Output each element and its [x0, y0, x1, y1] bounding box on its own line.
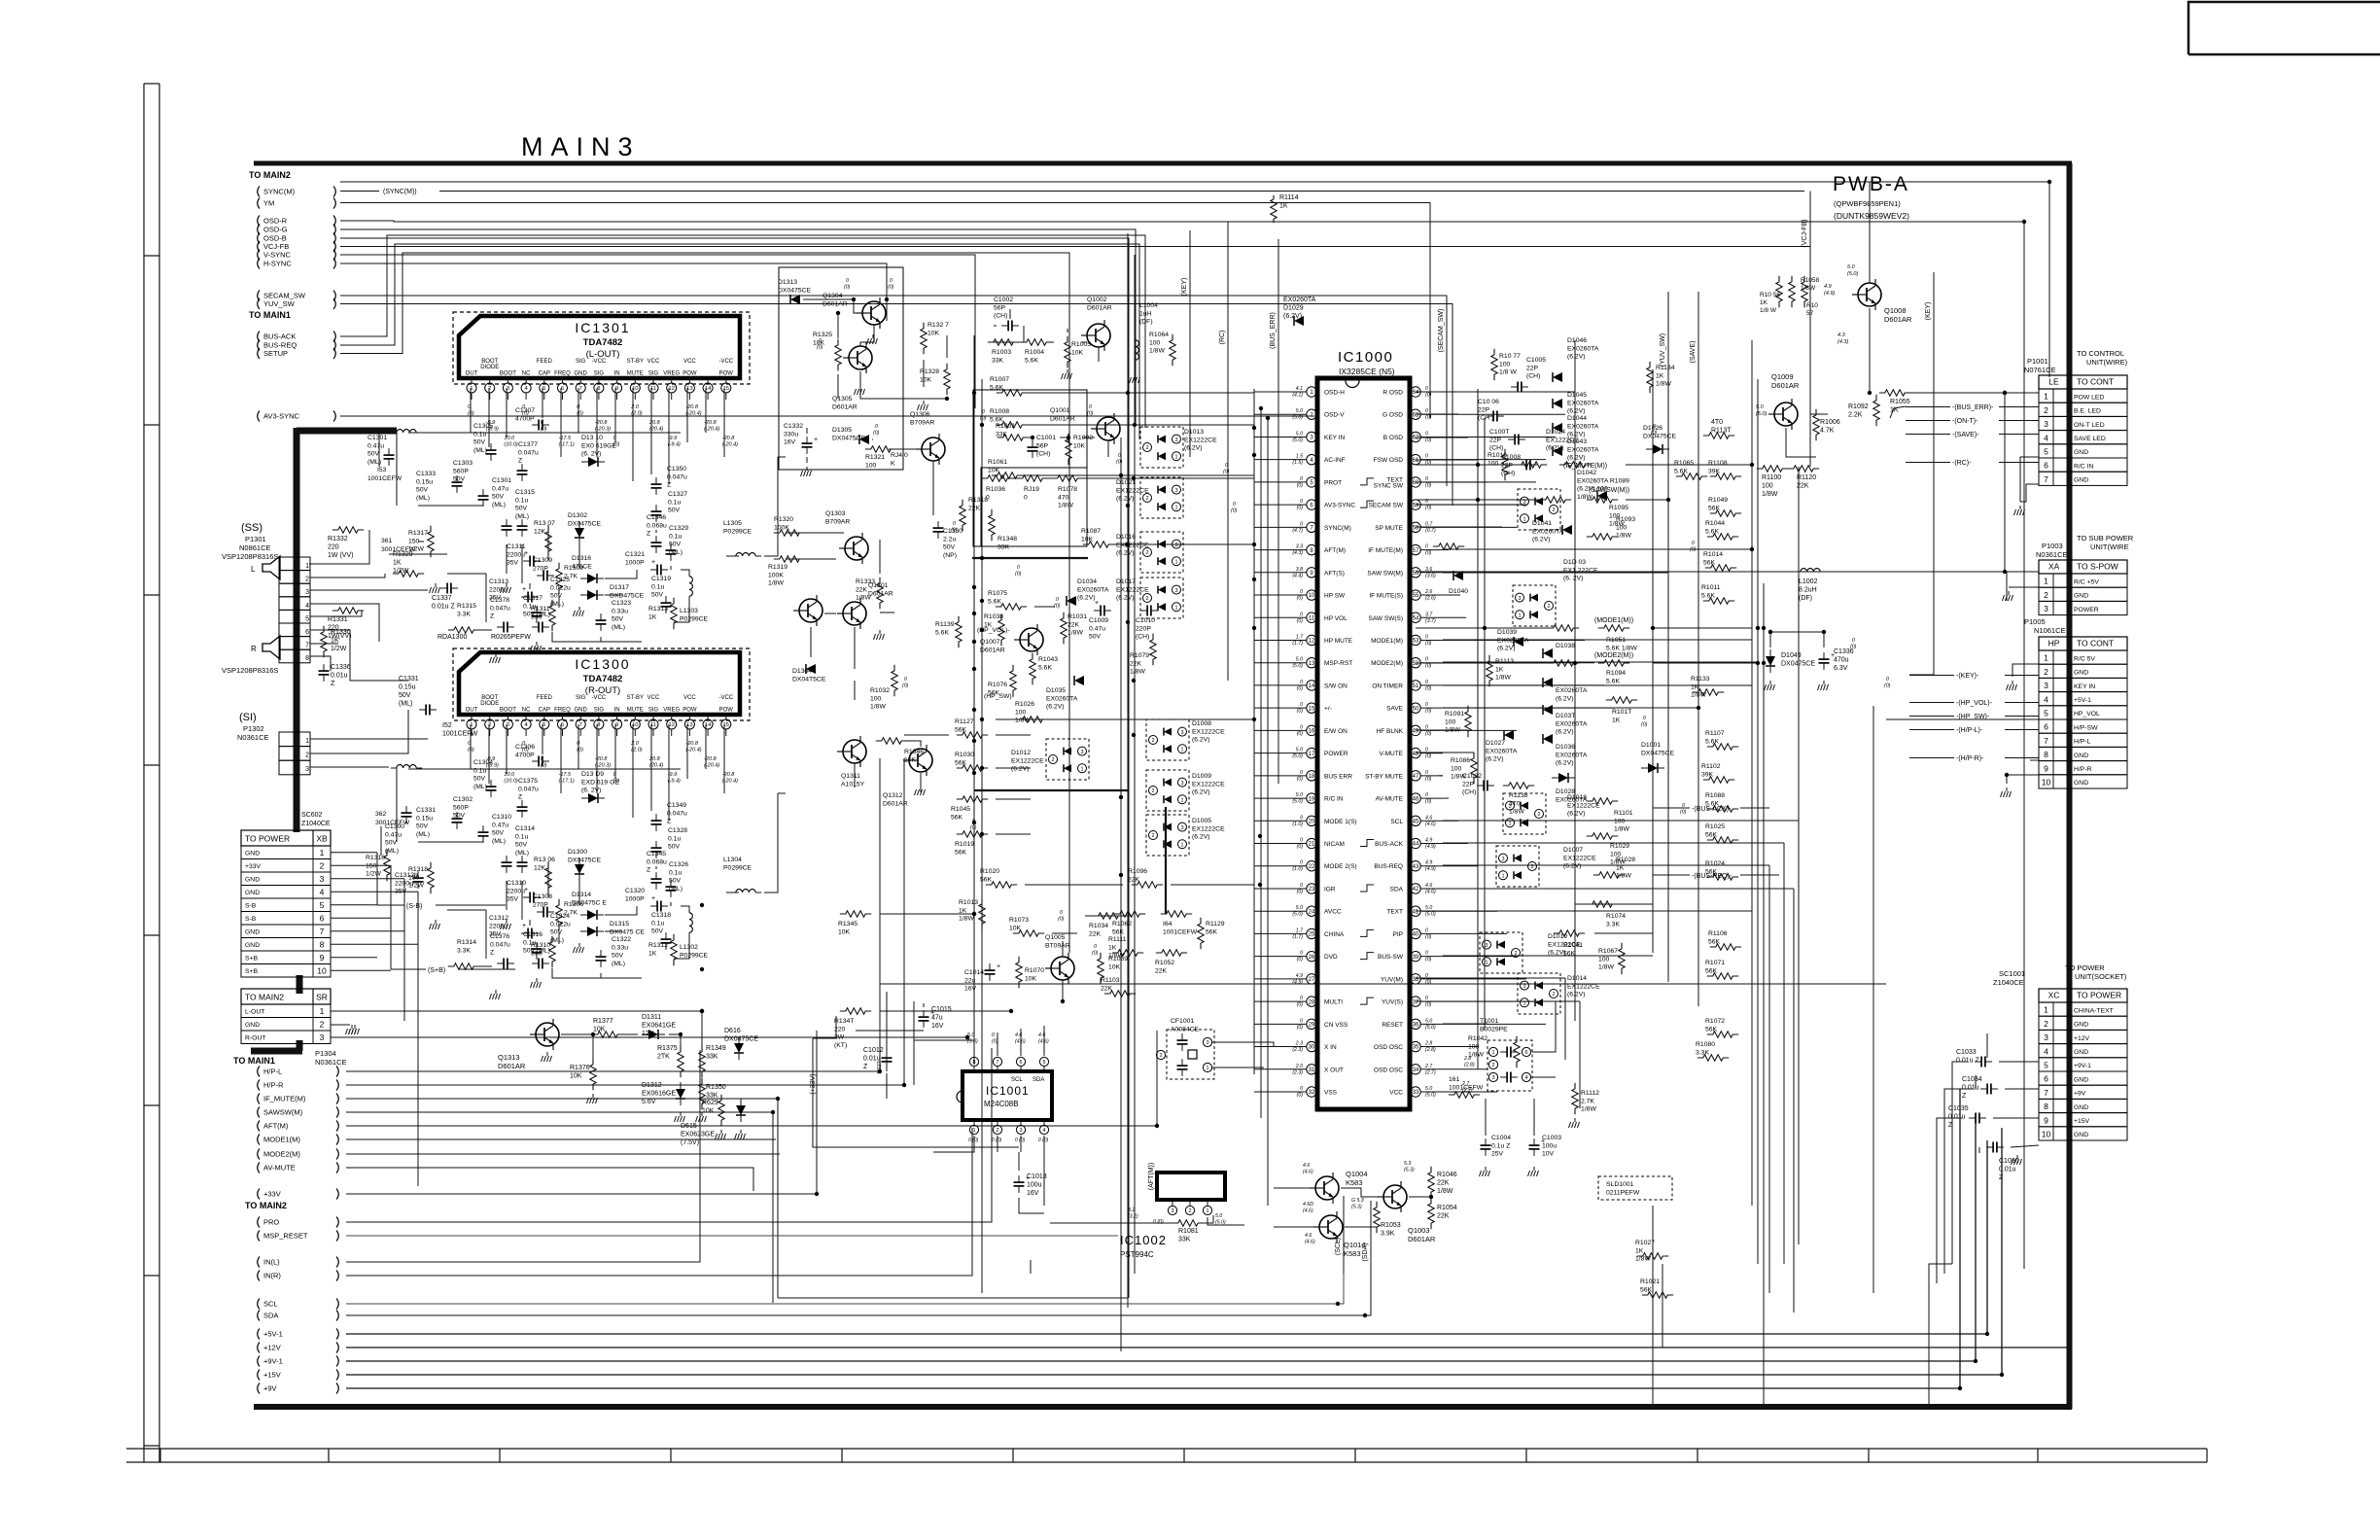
capacitor C1317: [538, 622, 540, 633]
wire riser2: [1975, 1113, 1977, 1361]
resistor R1080: [1697, 1055, 1729, 1061]
wire: [605, 570, 637, 578]
diode pair D1003: [1513, 585, 1556, 626]
svg-text:3.3K: 3.3K: [457, 611, 471, 617]
wire: [723, 724, 725, 793]
wire: [723, 388, 725, 457]
wire: [1254, 888, 1283, 890]
svg-text:GND: GND: [245, 1022, 260, 1029]
svg-text:(0): (0): [1297, 844, 1304, 850]
svg-text:0 (0): 0 (0): [1038, 1137, 1049, 1143]
svg-text:Q1001: Q1001: [1050, 407, 1070, 414]
svg-text:12K: 12K: [534, 528, 546, 535]
svg-text:100K: 100K: [774, 524, 789, 531]
transistor Q1301: [843, 602, 866, 625]
svg-text:1/8W: 1/8W: [1509, 809, 1524, 816]
svg-text:(CH): (CH): [1036, 451, 1050, 458]
svg-text:EX0260TA: EX0260TA: [1283, 297, 1316, 303]
wire spk5: [310, 611, 362, 616]
svg-text:D1042: D1042: [1577, 470, 1596, 476]
wire: [854, 763, 856, 787]
junction: [1750, 463, 1754, 467]
svg-text:SCL: SCL: [263, 1300, 278, 1309]
svg-text:(0): (0): [1054, 604, 1061, 610]
svg-text:D1038: D1038: [1556, 643, 1575, 649]
svg-text:(SYNC(M)): (SYNC(M)): [383, 189, 417, 195]
svg-text:SR: SR: [316, 993, 328, 1002]
wire: [933, 1136, 974, 1152]
wire YM net: [340, 203, 1430, 419]
svg-text:R10 56: R10 56: [1760, 292, 1780, 298]
svg-text:(4.9): (4.9): [1425, 866, 1436, 872]
wire spk7: [310, 643, 338, 645]
IC1000 pin 36 RESET: [1411, 1019, 1420, 1029]
svg-text:0.022u: 0.022u: [550, 921, 571, 927]
svg-text:(0): (0): [1297, 776, 1304, 782]
svg-text:-(BUS-REQ)-: -(BUS-REQ)-: [1692, 873, 1732, 880]
wire spk8: [310, 656, 331, 671]
diode D1028: [1558, 773, 1568, 783]
wire: [1443, 1000, 1580, 1002]
svg-text:56P: 56P: [994, 304, 1006, 311]
svg-text:GND: GND: [2074, 1049, 2088, 1056]
wire: [772, 1302, 774, 1304]
svg-text:-(RC)-: -(RC)-: [1952, 460, 1972, 467]
svg-text:R1112: R1112: [1581, 1090, 1599, 1097]
svg-text:2.6: 2.6: [1424, 589, 1432, 595]
svg-text:R1007: R1007: [990, 376, 1009, 383]
resistor R1076: [1010, 665, 1016, 696]
svg-text:0.1u: 0.1u: [515, 497, 528, 504]
svg-text:C1350: C1350: [667, 466, 686, 472]
wire: [1025, 884, 1123, 886]
svg-text:14: 14: [1309, 683, 1315, 689]
svg-text:S/W ON: S/W ON: [1324, 682, 1347, 689]
svg-text:2.3: 2.3: [1295, 1041, 1303, 1047]
svg-text:C1315: C1315: [515, 489, 535, 496]
wire: [872, 438, 873, 440]
capacitor C1312b: [413, 877, 424, 879]
IC1000 pin 20 MODE 1(S): [1307, 816, 1316, 825]
svg-text:EX1222CE: EX1222CE: [1192, 728, 1225, 735]
svg-text:7: 7: [579, 722, 582, 728]
connector stub +5V-1: [258, 1329, 260, 1340]
wire: [806, 457, 808, 463]
diode D1040: [1453, 571, 1463, 580]
junction: [1252, 453, 1256, 457]
wire: [1443, 639, 1752, 641]
junction: [1476, 498, 1480, 502]
wire: [1254, 1023, 1283, 1025]
svg-text:(2.3): (2.3): [1292, 1069, 1303, 1075]
transistor Q1005: [1051, 957, 1074, 980]
svg-text:50V: 50V: [651, 592, 664, 599]
svg-text:R1032: R1032: [870, 687, 890, 694]
left ruler frame: [143, 84, 145, 1462]
svg-text:EX1222CE: EX1222CE: [1184, 437, 1217, 443]
svg-text:C1377: C1377: [518, 441, 538, 448]
svg-text:10K: 10K: [1073, 442, 1086, 449]
wire XB row 6: [331, 917, 391, 919]
IC1000 pin 59 SECAM SW: [1411, 500, 1420, 509]
svg-text:R1078: R1078: [1058, 486, 1077, 493]
svg-text:R1028: R1028: [1616, 857, 1635, 863]
IC1000 pin 55 IF MUTE(S): [1411, 590, 1420, 600]
svg-text:Q1002: Q1002: [1087, 297, 1107, 303]
junction: [1258, 883, 1262, 887]
svg-text:6: 6: [320, 914, 325, 924]
svg-text:60: 60: [1413, 480, 1419, 486]
svg-text:6: 6: [1524, 1050, 1527, 1056]
svg-text:P0299CE: P0299CE: [680, 615, 709, 622]
svg-text:HP VOL: HP VOL: [1324, 615, 1347, 622]
ground: [578, 943, 580, 947]
svg-text:D1039: D1039: [1497, 629, 1517, 636]
wire: [1050, 341, 1054, 343]
wire +9V-1 net: [346, 1113, 1976, 1361]
svg-text:-(SAVE)-: -(SAVE)-: [1952, 432, 1979, 438]
capacitor C1375: [517, 806, 528, 808]
resistor R1137: [1703, 433, 1734, 438]
svg-text:H/P-R: H/P-R: [2074, 766, 2092, 773]
wire si1: [310, 738, 428, 740]
svg-text:N0361CE: N0361CE: [237, 733, 269, 742]
wire: [990, 326, 1024, 342]
svg-text:(0): (0): [541, 427, 547, 433]
capacitor C1003: [1529, 1144, 1540, 1146]
svg-text:1/8W: 1/8W: [1451, 774, 1466, 781]
svg-text:D1302: D1302: [568, 512, 587, 519]
svg-text:L1002: L1002: [1799, 578, 1818, 585]
wire: [378, 433, 380, 467]
diode D1044: [1553, 423, 1562, 433]
svg-text:RESET: RESET: [1382, 1022, 1403, 1029]
svg-text:GND: GND: [2074, 449, 2088, 456]
svg-text:AVCC: AVCC: [1324, 909, 1342, 916]
svg-text:C1320: C1320: [625, 888, 645, 894]
svg-text:270P: 270P: [533, 565, 548, 572]
svg-text:TO SUB POWER: TO SUB POWER: [2077, 534, 2134, 542]
svg-text:B709AR: B709AR: [825, 518, 850, 525]
svg-text:D1035: D1035: [1046, 687, 1066, 694]
diode D1035: [1074, 676, 1084, 685]
svg-text:-VCC: -VCC: [718, 359, 733, 365]
svg-text:-(HP_VOL)-: -(HP_VOL)-: [1956, 700, 1993, 707]
svg-text:0: 0: [1425, 476, 1428, 482]
capacitor C1305: [486, 449, 497, 451]
IC1000 pin 22 MODE 2(S): [1307, 861, 1316, 871]
svg-text:MODE1(M): MODE1(M): [1371, 638, 1403, 645]
wire +15V net: [346, 1128, 2002, 1375]
wire: [1254, 707, 1283, 709]
svg-text:0.1u: 0.1u: [473, 431, 486, 437]
svg-text:TO POWER: TO POWER: [2065, 963, 2105, 972]
svg-text:5.3: 5.3: [1404, 1161, 1411, 1167]
svg-text:3: 3: [1501, 857, 1504, 862]
resistor R1348: [989, 509, 995, 541]
wire: [1443, 820, 1799, 822]
svg-text:35V: 35V: [507, 896, 519, 903]
svg-text:SIG: SIG: [594, 371, 605, 377]
svg-text:(0): (0): [1425, 393, 1432, 399]
svg-text:R13 06: R13 06: [534, 857, 555, 863]
svg-text:(0): (0): [888, 285, 894, 291]
wire bus: [1751, 340, 1753, 1206]
wire XB verticals: [376, 853, 378, 905]
svg-text:(SDA): (SDA): [1362, 1242, 1369, 1261]
junction: [972, 612, 976, 615]
wire: [1443, 504, 1526, 506]
wire: [1443, 684, 1727, 686]
wire: [1416, 481, 1487, 483]
junction: [700, 967, 704, 971]
wire: [1021, 474, 1254, 476]
svg-text:SIG: SIG: [576, 359, 586, 365]
svg-text:R1071: R1071: [1705, 960, 1725, 966]
resistor R1329: [393, 571, 424, 577]
svg-text:R113T: R113T: [1711, 428, 1732, 435]
ground: [495, 653, 497, 657]
svg-text:5.6K: 5.6K: [935, 629, 949, 636]
svg-text:0: 0: [1425, 951, 1428, 957]
wire Q1009 area: [1810, 413, 1828, 415]
svg-text:(5.0): (5.0): [1292, 912, 1303, 918]
svg-text:TO MAIN2: TO MAIN2: [245, 993, 284, 1002]
resistor R1043: [1030, 653, 1035, 684]
svg-text:D601AR: D601AR: [868, 590, 893, 597]
svg-text:A0084CE: A0084CE: [1171, 1026, 1200, 1032]
IC1000 pin 33 VCC: [1411, 1087, 1420, 1097]
svg-text:IC1002: IC1002: [1120, 1233, 1167, 1247]
svg-text:R1061: R1061: [988, 459, 1007, 466]
resistor R1096: [1132, 882, 1163, 888]
wire: [879, 758, 881, 1071]
svg-text:EX0260TA: EX0260TA: [1532, 528, 1564, 535]
svg-text:CHINA-TEXT: CHINA-TEXT: [2074, 1007, 2114, 1014]
svg-text:13: 13: [1309, 661, 1315, 667]
svg-text:C1305: C1305: [473, 423, 493, 430]
resistor R1315: [448, 627, 479, 633]
svg-text:2: 2: [1145, 550, 1148, 556]
svg-text:0.01u: 0.01u: [1962, 1085, 1979, 1092]
svg-text:C1004: C1004: [1491, 1135, 1511, 1141]
wire XB row 8: [331, 943, 418, 945]
svg-text:BUS-ACK: BUS-ACK: [263, 332, 296, 341]
IC1000 pin 8 AFT(M): [1307, 544, 1316, 554]
svg-text:1K: 1K: [959, 907, 967, 914]
svg-text:(ML): (ML): [492, 502, 506, 508]
svg-text:DIODE: DIODE: [480, 701, 499, 707]
svg-text:(-20.4): (-20.4): [704, 427, 719, 433]
wire: [1254, 662, 1283, 664]
svg-text:MODE 1(S): MODE 1(S): [1324, 819, 1357, 825]
wire t1001: [1532, 1001, 1556, 1052]
svg-text:0: 0: [1425, 454, 1428, 460]
svg-text:(0): (0): [1680, 810, 1687, 816]
resistor R134T: [840, 1008, 871, 1014]
IC1000 pin 10 HP SW: [1307, 590, 1316, 600]
svg-text:1000P: 1000P: [625, 559, 645, 566]
svg-text:1: 1: [2044, 1005, 2048, 1015]
svg-text:3: 3: [2044, 604, 2048, 613]
svg-text:C1331: C1331: [399, 676, 419, 682]
svg-text:1001CEFW: 1001CEFW: [1163, 928, 1198, 935]
svg-text:0: 0: [992, 1032, 995, 1038]
svg-text:R1375: R1375: [657, 1045, 678, 1052]
svg-text:EX1222CE: EX1222CE: [1116, 542, 1149, 548]
svg-text:EX0623GE: EX0623GE: [681, 1132, 715, 1138]
wire: [1254, 752, 1283, 754]
title block top-right corner: [2188, 2, 2380, 54]
wire: [1443, 1068, 1487, 1070]
svg-text:PROT: PROT: [1324, 479, 1342, 486]
wire: [997, 1136, 998, 1152]
connector table XB TO POWER: [241, 830, 331, 846]
svg-text:39K: 39K: [1708, 468, 1721, 474]
IC1001 pin 1: [973, 1120, 975, 1125]
resistor R1306: [556, 899, 562, 930]
svg-text:470u: 470u: [1834, 657, 1849, 664]
ground: [872, 334, 874, 338]
svg-text:0: 0: [1300, 883, 1303, 889]
IC1000 pin 23 IGR: [1307, 884, 1316, 893]
resistor R101T: [1606, 697, 1637, 703]
wire bus: [1757, 379, 1759, 1264]
svg-text:(ML): (ML): [515, 513, 529, 520]
svg-text:50V: 50V: [612, 616, 624, 623]
resistor R1061: [992, 472, 1023, 478]
svg-text:TO CONT: TO CONT: [2077, 639, 2114, 648]
wire: [1018, 1152, 1020, 1171]
svg-text:IF MUTE(M): IF MUTE(M): [1368, 547, 1403, 554]
wire: [854, 681, 856, 700]
IC1000 pin step glyph: [1360, 840, 1374, 847]
wire: [913, 1001, 915, 1085]
wire: [903, 758, 905, 1085]
svg-text:1001CEFW: 1001CEFW: [442, 731, 478, 738]
svg-text:56K: 56K: [955, 726, 967, 733]
diode D1039: [1514, 637, 1523, 647]
connector table SR TO MAIN2: [241, 989, 331, 1004]
svg-text:D1014: D1014: [1567, 975, 1587, 982]
svg-text:(0): (0): [1015, 572, 1022, 577]
capacitor C1002: [1007, 321, 1009, 332]
wire: [996, 767, 1031, 769]
svg-text:(0): (0): [1297, 889, 1304, 894]
resistor R1112: [1572, 1083, 1578, 1114]
svg-text:18: 18: [1309, 774, 1315, 780]
svg-text:(VCJ-FB): (VCJ-FB): [1802, 219, 1808, 247]
speaker L icon: [262, 556, 280, 579]
svg-text:2: 2: [1151, 833, 1154, 839]
svg-text:R1081: R1081: [1178, 1228, 1199, 1235]
svg-text:10K: 10K: [1108, 963, 1121, 970]
wire: [879, 540, 881, 574]
svg-text:2: 2: [1151, 788, 1154, 794]
svg-text:IN(R): IN(R): [263, 1272, 281, 1280]
wire: [1443, 481, 1536, 483]
svg-text:+12V: +12V: [263, 1344, 281, 1352]
wire: [1026, 392, 1254, 394]
svg-text:0.47u: 0.47u: [492, 822, 508, 828]
svg-text:D601AR: D601AR: [1884, 315, 1912, 324]
junction: [1119, 473, 1123, 477]
junction: [1119, 873, 1123, 877]
svg-text:(6.2V): (6.2V): [1563, 863, 1582, 870]
resistor R1067: [1619, 943, 1625, 974]
svg-text:P1302: P1302: [243, 724, 264, 733]
junction: [1155, 1124, 1159, 1128]
svg-text:OUT: OUT: [466, 708, 478, 714]
capacitor C1313: [527, 592, 529, 603]
box around R1036 group: [981, 468, 1087, 546]
wire: [1254, 956, 1283, 958]
vertical net (KEY2): [1189, 230, 1191, 457]
junction: [1126, 391, 1130, 395]
transistor Q1003: [1383, 1185, 1407, 1208]
connector stub SECAM_SW: [258, 291, 260, 301]
resistor R1031: [1061, 612, 1067, 644]
wire: [596, 724, 598, 793]
svg-text:1/8W: 1/8W: [870, 704, 886, 711]
svg-text:33K: 33K: [997, 543, 1010, 550]
connector stub +12V: [258, 1343, 260, 1353]
svg-text:R1101: R1101: [1614, 810, 1633, 817]
svg-text:DX0475CE: DX0475CE: [832, 435, 865, 441]
wire: [1254, 910, 1283, 912]
wire: [1443, 526, 1517, 528]
wire: [1207, 1217, 1244, 1225]
wire: [396, 767, 398, 842]
junction: [972, 821, 976, 824]
connector stub H/P-L: [258, 1067, 260, 1077]
svg-text:R1350: R1350: [706, 1084, 726, 1091]
svg-text:0: 0: [1300, 612, 1303, 617]
resistor R1026: [1017, 717, 1048, 722]
svg-text:D1305: D1305: [832, 427, 852, 434]
junction: [1132, 679, 1136, 682]
svg-text:R1013: R1013: [959, 899, 978, 906]
wire: [1254, 820, 1283, 822]
svg-text:(3.7): (3.7): [1425, 618, 1436, 624]
svg-text:(CH): (CH): [1136, 634, 1149, 641]
svg-text:TO MAIN2: TO MAIN2: [245, 1201, 287, 1210]
svg-text:PRO: PRO: [263, 1218, 279, 1227]
connector stub V-SYNC: [258, 250, 260, 261]
junction: [945, 397, 949, 401]
svg-text:UNIT(SOCKET): UNIT(SOCKET): [2075, 972, 2127, 981]
svg-text:37: 37: [1413, 999, 1419, 1005]
svg-text:DX0475C E: DX0475C E: [572, 899, 607, 906]
wire: [447, 573, 486, 575]
svg-text:(0): (0): [1297, 709, 1304, 715]
svg-text:(0): (0): [1425, 753, 1432, 759]
wire +33V net: [346, 1193, 817, 1195]
wire: [1443, 616, 1466, 618]
svg-text:MSP_RESET: MSP_RESET: [263, 1232, 308, 1241]
connector stub +33V: [258, 1189, 260, 1200]
wire: [506, 388, 507, 437]
wire: [1009, 309, 1011, 319]
svg-text:2.0: 2.0: [1295, 1064, 1303, 1069]
wire: [1999, 1061, 2039, 1063]
svg-text:C1310: C1310: [492, 814, 511, 821]
svg-text:EX0616GE: EX0616GE: [642, 1091, 676, 1098]
junction: [1031, 436, 1034, 439]
wire: [1017, 341, 1023, 343]
svg-text:362: 362: [375, 811, 387, 818]
capacitor C1302: [478, 831, 489, 833]
